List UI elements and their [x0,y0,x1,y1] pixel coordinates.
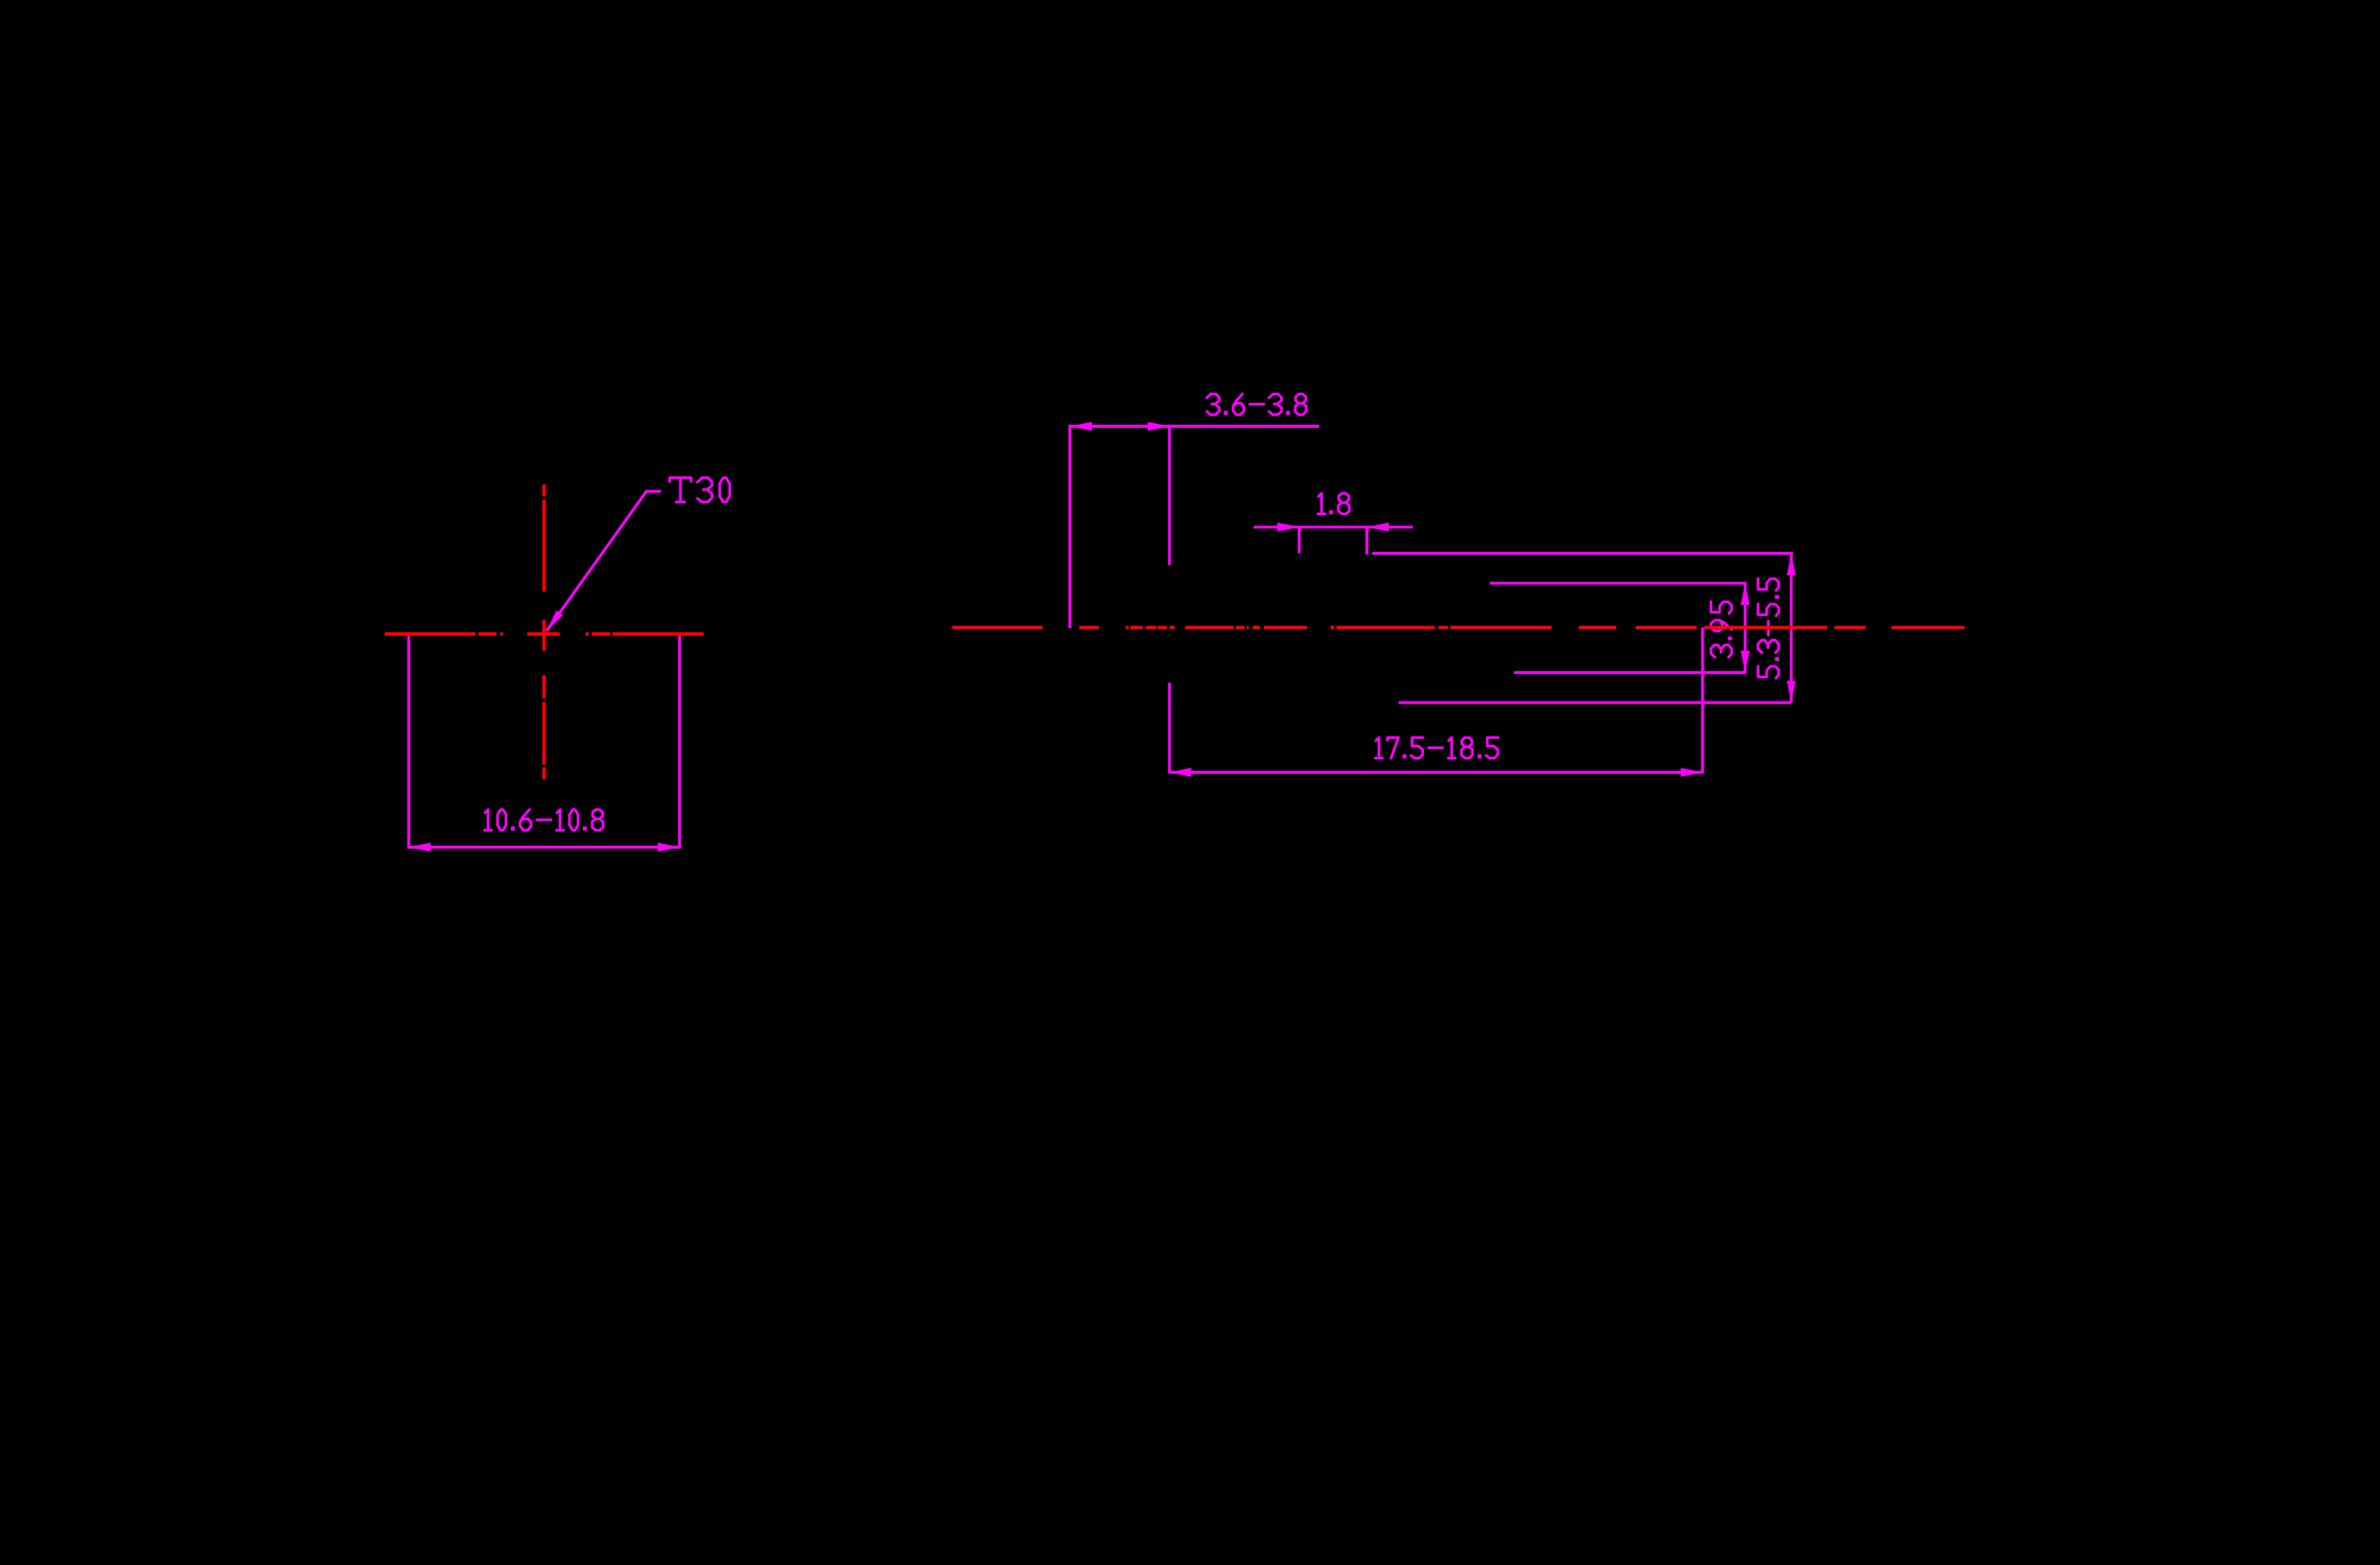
dimension line 5.3-5.5 (vertical) with arrows [1787,553,1796,703]
extension line right of 17.5-18.5 [1701,627,1704,774]
extension line 2 (3.6-3.8 top / 17.5-18.5 left) [1168,425,1171,774]
extension line right (10.6-10.8) [678,633,681,850]
dimension text 17.5-18.5 [1375,737,1498,758]
dimension line 1.8 with outside arrows [1254,523,1413,532]
dimension text 10.6-10.8 [485,810,603,831]
dimension line 3.6-3.8 with arrows [1070,422,1319,430]
extension line left of 1.8 [1298,527,1301,553]
dimension text 3.6-3.8 [1207,394,1306,415]
dimension line 17.5-18.5 with arrows [1170,768,1703,776]
extension line C (bottom, dia 3.95) [1514,671,1747,674]
extension line A (top, dia 5.3-5.5) [1372,552,1793,555]
left view: red vertical centerline [542,485,546,780]
extension line B (top, dia 3.95) [1490,581,1746,585]
left view: red horizontal centerline [385,632,704,635]
leader line to T30 [546,492,661,632]
label T30 [669,478,729,502]
dimension text 5.3-5.5 (rotated) [1758,578,1779,678]
extension line left (10.6-10.8) [408,633,411,850]
dimension text 1.8 [1318,493,1349,514]
extension line D (bottom, dia 5.3-5.5) [1399,701,1792,705]
extension line right of 1.8 [1365,527,1368,554]
right view: red horizontal centerline [952,626,1965,629]
dimension line 3.95 (vertical) with arrows [1741,583,1750,673]
extension line 1 of 3.6-3.8 [1068,425,1072,628]
dimension line 10.6-10.8 with arrows [409,843,680,851]
dimension text 3.95 (rotated) [1711,602,1732,658]
